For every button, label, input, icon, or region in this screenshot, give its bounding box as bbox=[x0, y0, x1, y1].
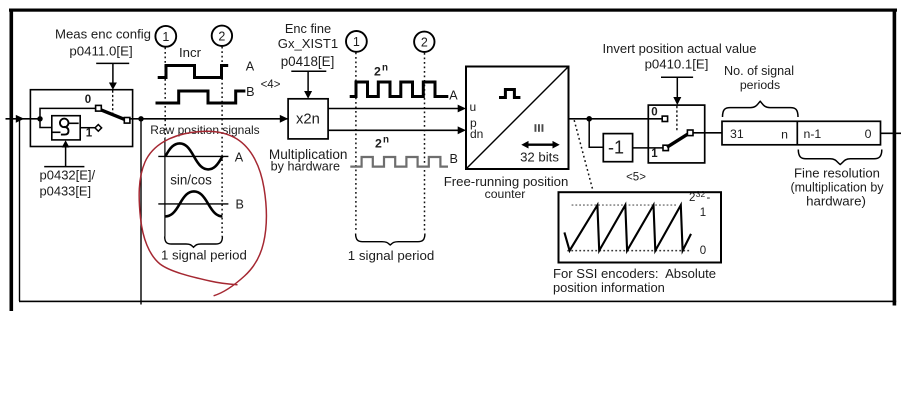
SSI box bbox=[559, 192, 722, 262]
circled 1 (right pair) bbox=[346, 31, 367, 52]
waveform pulse train A bbox=[350, 82, 449, 97]
wire main input line bbox=[6, 118, 41, 120]
circled 1 (left pair) bbox=[155, 26, 176, 47]
svg-text:0: 0 bbox=[651, 106, 657, 118]
svg-text:counter: counter bbox=[485, 187, 526, 201]
svg-text:2: 2 bbox=[689, 192, 695, 204]
underbrace fine resolution bbox=[798, 150, 882, 165]
wire branch to 0-contact bbox=[40, 108, 95, 118]
switch box U1 (meas enc config) bbox=[30, 90, 132, 147]
svg-text:hardware): hardware) bbox=[806, 194, 866, 209]
block -1 bbox=[603, 134, 632, 162]
wire invert out to register bbox=[693, 132, 722, 134]
waveform pulse train B (gray) bbox=[350, 157, 448, 167]
dashed control line inside box bbox=[112, 91, 114, 114]
overbrace no of signal periods bbox=[723, 101, 799, 117]
waveform sine B bbox=[165, 191, 222, 216]
solid ref line below main line bbox=[164, 138, 166, 237]
svg-text:Fine resolution: Fine resolution bbox=[794, 166, 880, 181]
svg-text:Invert position actual value: Invert position actual value bbox=[603, 41, 757, 56]
wire to -1 block bbox=[589, 119, 603, 147]
svg-text:<5>: <5> bbox=[626, 172, 646, 184]
svg-text:B: B bbox=[235, 198, 243, 212]
svg-text:x2n: x2n bbox=[296, 112, 320, 128]
dashed ref line circle2 right bbox=[424, 53, 426, 233]
contact 0 bbox=[96, 105, 102, 111]
red annotation ellipse (hand-drawn, single stroke with overshoot) bbox=[139, 131, 266, 296]
svg-text:For SSI encoders: Absolute: For SSI encoders: Absolute bbox=[553, 266, 716, 281]
switch arm bbox=[101, 110, 125, 120]
arrow into x2n bbox=[280, 115, 288, 123]
svg-text:2: 2 bbox=[421, 35, 428, 49]
arrow up into shaper from p0432 bbox=[65, 147, 67, 167]
frame bottom line bbox=[19, 301, 896, 303]
wire vertical drop x19 bbox=[19, 119, 21, 301]
arrow into invert switch bbox=[673, 97, 681, 105]
arrow into switch box bbox=[109, 83, 117, 90]
svg-text:n: n bbox=[383, 135, 389, 146]
contact 1 bbox=[95, 125, 102, 132]
svg-text:p0418[E]: p0418[E] bbox=[281, 54, 335, 69]
wire vertical drop x141 bbox=[140, 119, 142, 305]
III marks bbox=[535, 124, 537, 132]
parameter T-bar p0418 bbox=[291, 70, 326, 72]
switch box invert bbox=[648, 105, 704, 163]
svg-text:(multiplication by: (multiplication by bbox=[790, 181, 884, 195]
svg-text:32: 32 bbox=[696, 189, 706, 199]
wire p0418 down bbox=[307, 71, 309, 92]
circled 2 (right pair) bbox=[414, 32, 434, 52]
dashed ref line circle1 right bbox=[355, 53, 357, 233]
arrow into counter u bbox=[458, 105, 466, 113]
svg-text:2: 2 bbox=[374, 64, 381, 78]
svg-text:-1: -1 bbox=[608, 137, 624, 157]
svg-text:p0410.1[E]: p0410.1[E] bbox=[645, 57, 709, 72]
axis sine A bbox=[158, 155, 228, 157]
shaper icon tick left bbox=[52, 131, 61, 133]
wire p0410 down bbox=[676, 77, 678, 98]
dashed ref line from circle 2 bbox=[221, 47, 223, 237]
SSI sawtooth bbox=[564, 205, 691, 251]
svg-text:32 bits: 32 bits bbox=[520, 150, 559, 165]
svg-text:periods: periods bbox=[740, 78, 780, 92]
wire counter output bbox=[569, 118, 664, 120]
wire x2n out 1 bbox=[328, 108, 459, 110]
frame right border bbox=[893, 9, 897, 306]
svg-text:Incr: Incr bbox=[179, 45, 202, 60]
svg-text:Raw position signals: Raw position signals bbox=[150, 123, 259, 137]
contact right bbox=[124, 118, 130, 124]
waveform Incr A bbox=[158, 66, 229, 78]
svg-text:sin/cos: sin/cos bbox=[170, 173, 212, 188]
svg-text:p0433[E]: p0433[E] bbox=[40, 183, 92, 198]
svg-text:1 signal period: 1 signal period bbox=[161, 248, 247, 263]
svg-text:2: 2 bbox=[375, 137, 382, 151]
block x2n bbox=[288, 99, 328, 139]
waveform Incr B bbox=[156, 91, 246, 103]
wire -1 out bbox=[633, 147, 663, 149]
svg-text:31: 31 bbox=[730, 127, 744, 141]
wire p0411 down bbox=[112, 63, 114, 83]
svg-text:-: - bbox=[707, 192, 711, 204]
svg-text:0: 0 bbox=[700, 245, 706, 257]
arrow into counter dn bbox=[458, 126, 466, 134]
node junction dot left bbox=[37, 116, 42, 121]
svg-text:p0432[E]/: p0432[E]/ bbox=[40, 168, 96, 183]
svg-text:dn: dn bbox=[470, 127, 483, 141]
dotted pointer to SSI box bbox=[574, 120, 593, 191]
arrow into x2n top bbox=[304, 91, 312, 99]
svg-text:B: B bbox=[246, 85, 254, 99]
svg-text:Meas enc config: Meas enc config bbox=[55, 27, 151, 42]
svg-text:<4>: <4> bbox=[261, 79, 281, 91]
SSI bottom dotted level bbox=[567, 250, 691, 252]
svg-text:1 signal period: 1 signal period bbox=[348, 248, 435, 263]
svg-text:A: A bbox=[246, 60, 255, 74]
frame left border bbox=[10, 9, 14, 312]
parameter T-bar p0410 bbox=[661, 76, 693, 78]
svg-text:No. of signal: No. of signal bbox=[724, 64, 794, 78]
circled 2 (left pair) bbox=[212, 26, 232, 46]
wire x2n out 2 bbox=[328, 129, 459, 131]
waveform sine A bbox=[165, 143, 222, 169]
svg-text:A: A bbox=[235, 151, 244, 165]
32 bits double arrow bbox=[526, 143, 556, 145]
shaper icon upper loop bbox=[60, 119, 69, 128]
svg-text:n-1: n-1 bbox=[804, 127, 822, 141]
brace 1 signal period (left) bbox=[165, 237, 223, 248]
svg-text:Gx_XIST1: Gx_XIST1 bbox=[278, 36, 338, 51]
svg-text:n: n bbox=[382, 62, 388, 73]
parameter T-bar p0411 bbox=[96, 62, 129, 64]
wire register out bbox=[881, 132, 901, 134]
shaper icon lower loop bbox=[61, 127, 69, 135]
svg-text:n: n bbox=[781, 128, 788, 142]
svg-text:1: 1 bbox=[353, 35, 360, 49]
svg-text:0: 0 bbox=[865, 127, 872, 141]
svg-text:1: 1 bbox=[700, 207, 706, 219]
counter pulse icon bbox=[499, 90, 520, 98]
parameter T-bar p0432 bbox=[44, 166, 84, 168]
counter diagonal bbox=[466, 67, 569, 170]
contact 1 (invert) bbox=[663, 145, 668, 150]
svg-text:1: 1 bbox=[86, 128, 93, 140]
arrow on input line bbox=[16, 115, 24, 123]
svg-text:2: 2 bbox=[218, 29, 225, 43]
node junction dot output bbox=[586, 116, 592, 122]
register divider bbox=[796, 121, 798, 145]
wire branch to shaper input bbox=[40, 119, 52, 128]
svg-text:position information: position information bbox=[553, 280, 665, 295]
contact 0 (invert) bbox=[662, 116, 667, 121]
svg-text:B: B bbox=[449, 152, 457, 166]
shaper block (pulse shaping) bbox=[52, 116, 80, 140]
dashed ref line from circle 1 bbox=[164, 48, 166, 139]
shaper icon tick right bbox=[68, 122, 78, 124]
svg-text:1: 1 bbox=[651, 148, 658, 160]
axis sine B bbox=[158, 203, 228, 205]
svg-text:by hardware: by hardware bbox=[271, 159, 340, 173]
brace 1 signal period (right) bbox=[356, 234, 425, 246]
wire shaper out to 1-contact bbox=[80, 127, 95, 129]
wire switch out to x2n bbox=[129, 118, 288, 120]
register box bbox=[722, 121, 881, 145]
frame top border bbox=[9, 9, 897, 12]
SSI top dotted level bbox=[572, 204, 678, 206]
node junction dot x141 bbox=[138, 116, 143, 121]
svg-text:A: A bbox=[449, 88, 458, 102]
svg-text:Enc fine: Enc fine bbox=[285, 21, 331, 36]
svg-text:u: u bbox=[470, 100, 477, 114]
dashed control line inside invert box bbox=[676, 106, 678, 131]
svg-text:1: 1 bbox=[162, 30, 169, 44]
svg-text:p0411.0[E]: p0411.0[E] bbox=[69, 44, 132, 59]
svg-text:0: 0 bbox=[85, 94, 91, 106]
switch arm invert bbox=[667, 133, 689, 147]
block free-running position counter bbox=[466, 67, 569, 170]
contact right (invert) bbox=[687, 130, 693, 136]
